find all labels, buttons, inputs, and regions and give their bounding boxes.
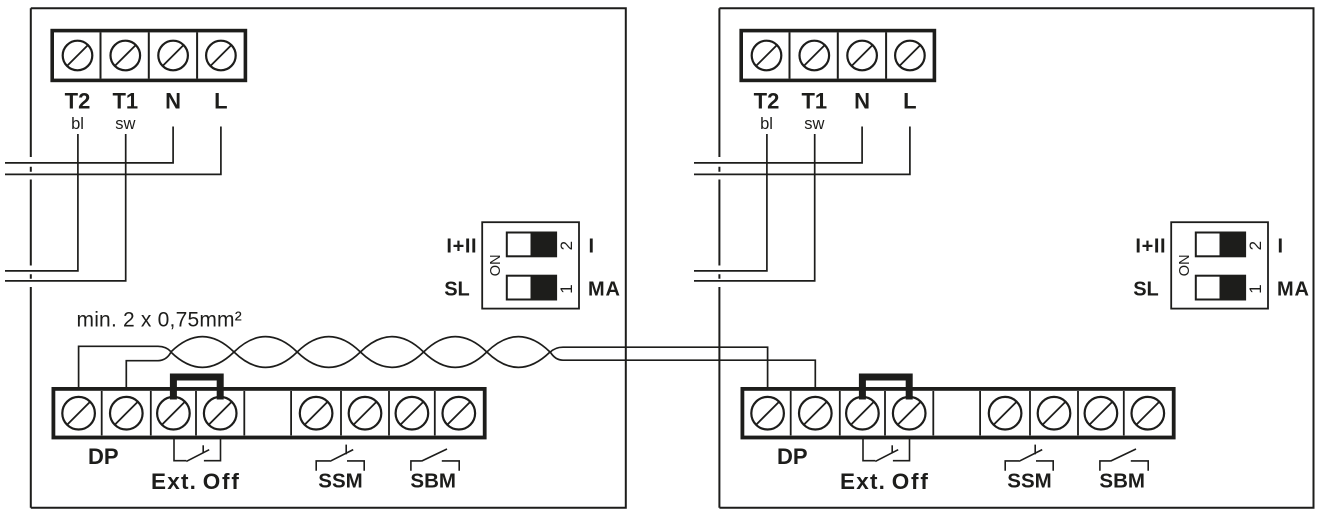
svg-text:min. 2 x 0,75mm²: min. 2 x 0,75mm² (77, 309, 242, 332)
svg-text:1: 1 (1246, 284, 1265, 293)
svg-text:Ext.: Ext. (151, 469, 197, 494)
svg-text:bl: bl (71, 115, 84, 133)
svg-text:L: L (214, 89, 227, 114)
svg-text:SBM: SBM (410, 469, 456, 492)
screw terminal N (left) (158, 41, 188, 71)
enclosure box (left) (31, 8, 626, 507)
svg-text:ON: ON (488, 254, 504, 276)
svg-text:T2: T2 (754, 89, 780, 114)
screw terminal T2 (left) (63, 41, 93, 71)
wire left DP-2 to twisted pair (126, 352, 171, 388)
svg-text:bl: bl (760, 115, 773, 133)
switch contact symbol Ext. Off (right) (863, 438, 910, 462)
screw terminal SSM-2 (right) (1038, 397, 1071, 430)
screw terminal SSM-2 (left) (349, 397, 382, 430)
switch contact symbol SSM (right) (1005, 445, 1053, 471)
svg-text:I+II: I+II (446, 235, 477, 257)
wire N to external stub (left) (5, 127, 173, 163)
svg-text:SL: SL (1133, 278, 1159, 300)
screw terminal DP-1 (left) (62, 397, 95, 430)
svg-text:MA: MA (588, 278, 621, 300)
screw terminal SBM-2 (right) (1132, 397, 1165, 430)
wire left DP-1 to twisted pair (79, 346, 171, 388)
wire twisted pair to right DP-1 (550, 347, 768, 388)
svg-text:Off: Off (892, 469, 930, 494)
screw terminal T1 (left) (111, 41, 141, 71)
wire T2 to external stub (right) (694, 134, 767, 271)
screw terminal SSM-1 (right) (989, 397, 1022, 430)
svg-text:T2: T2 (65, 89, 91, 114)
jumper across Ext.Off terminals (left) (173, 377, 220, 400)
jumper across Ext.Off terminals (right) (862, 377, 909, 400)
DIP switch body (right) (1171, 222, 1268, 308)
terminal block X2 control (right) (742, 389, 1173, 438)
svg-text:SSM: SSM (318, 469, 362, 492)
screw terminal Ext.Off-1 (right) (846, 397, 879, 430)
screw terminal T1 (right) (800, 41, 830, 71)
wire T1 to external stub (left) (5, 134, 126, 281)
enclosure left border with dash-dot wire crossings (right) (718, 8, 720, 507)
wire T2 to external stub (left) (5, 134, 78, 271)
screw terminal N (right) (847, 41, 877, 71)
svg-text:I+II: I+II (1135, 235, 1166, 257)
svg-text:I: I (1278, 235, 1284, 257)
screw terminal DP-1 (right) (751, 397, 784, 430)
svg-text:Off: Off (203, 469, 241, 494)
enclosure box (right) (719, 8, 1313, 507)
svg-text:MA: MA (1277, 278, 1310, 300)
enclosure left border with dash-dot wire crossings (left) (30, 8, 32, 507)
screw terminal T2 (right) (752, 41, 782, 71)
wire N to external stub (right) (694, 127, 862, 163)
switch contact symbol SBM (right) (1100, 449, 1148, 471)
DIP switch position 2 (right) (1196, 233, 1245, 257)
screw terminal L (right) (895, 41, 925, 71)
svg-text:ON: ON (1177, 254, 1193, 276)
svg-text:1: 1 (557, 284, 576, 293)
twisted pair cable wave A (171, 337, 550, 368)
screw terminal L (left) (206, 41, 236, 71)
svg-text:Ext.: Ext. (840, 469, 886, 494)
screw terminal SBM-2 (left) (443, 397, 476, 430)
svg-text:N: N (854, 89, 870, 114)
svg-text:L: L (903, 89, 916, 114)
switch contact symbol SSM (left) (316, 445, 364, 471)
terminal block X2 control (left) (53, 389, 484, 438)
terminal block X1 mains/thermostat (right) (741, 31, 934, 81)
DIP switch position 1 (left) (507, 276, 556, 300)
svg-text:DP: DP (777, 444, 808, 469)
screw terminal Ext.Off-2 (right) (893, 397, 926, 430)
terminal block X1 mains/thermostat (left) (52, 31, 245, 81)
svg-text:sw: sw (804, 115, 824, 133)
DIP switch position 1 (right) (1196, 276, 1245, 300)
svg-text:T1: T1 (112, 89, 138, 114)
DIP switch position 2 (left) (507, 233, 556, 257)
svg-text:SBM: SBM (1099, 469, 1145, 492)
wire L to external stub (left) (5, 127, 221, 175)
screw terminal SBM-1 (right) (1085, 397, 1118, 430)
switch contact symbol Ext. Off (left) (174, 438, 221, 462)
screw terminal Ext.Off-1 (left) (157, 397, 190, 430)
screw terminal DP-2 (right) (799, 397, 832, 430)
svg-text:N: N (165, 89, 181, 114)
DIP switch body (left) (482, 222, 579, 308)
screw terminal Ext.Off-2 (left) (204, 397, 237, 430)
wire L to external stub (right) (694, 127, 910, 175)
screw terminal DP-2 (left) (110, 397, 143, 430)
svg-text:SL: SL (444, 278, 470, 300)
svg-text:sw: sw (115, 115, 135, 133)
svg-text:2: 2 (1246, 241, 1265, 250)
svg-text:T1: T1 (801, 89, 827, 114)
svg-text:I: I (589, 235, 595, 257)
switch contact symbol SBM (left) (411, 449, 459, 471)
screw terminal SBM-1 (left) (396, 397, 429, 430)
svg-text:DP: DP (88, 444, 119, 469)
twisted pair cable wave B (171, 337, 550, 368)
svg-text:SSM: SSM (1007, 469, 1051, 492)
wire T1 to external stub (right) (694, 134, 815, 281)
screw terminal SSM-1 (left) (300, 397, 333, 430)
wire twisted pair to right DP-2 (550, 352, 815, 389)
svg-text:2: 2 (557, 241, 576, 250)
